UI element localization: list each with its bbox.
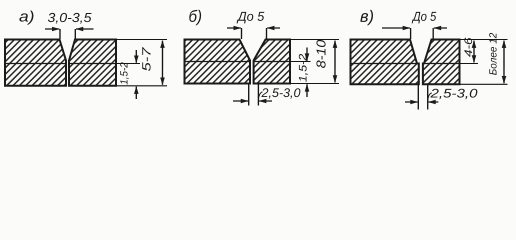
dimension До 5 б [227, 28, 280, 39]
dimension 2,5-3,0 б [233, 84, 272, 106]
dimension 4-6 в [473, 41, 475, 63]
label в) [360, 10, 373, 25]
dimension 1,5-2 б [306, 48, 308, 97]
plate б left piece [184, 40, 250, 84]
plate а right piece [69, 40, 116, 86]
plate а left piece [5, 40, 66, 86]
dimension 1,5-2 а [135, 50, 137, 99]
root-face line б [184, 61, 250, 63]
dimension 5-7 а [161, 41, 163, 85]
dimension 8-10 б [334, 41, 336, 83]
extension lines б right [290, 40, 339, 84]
extension lines а right [116, 40, 167, 86]
root-face line а [5, 63, 66, 65]
label а) [19, 11, 33, 25]
root-face line в [350, 63, 418, 65]
extension lines в right [459, 40, 507, 85]
dimension Более 12 в [503, 41, 505, 84]
label б) [189, 10, 201, 26]
plate б right piece [254, 40, 290, 84]
plate в right piece [423, 40, 460, 85]
dimension 2,5-3,0 в [405, 84, 438, 109]
dimension До 5 в [382, 28, 447, 39]
dimension 3,0-3,5 а [45, 29, 94, 39]
plate в left piece [350, 40, 418, 85]
